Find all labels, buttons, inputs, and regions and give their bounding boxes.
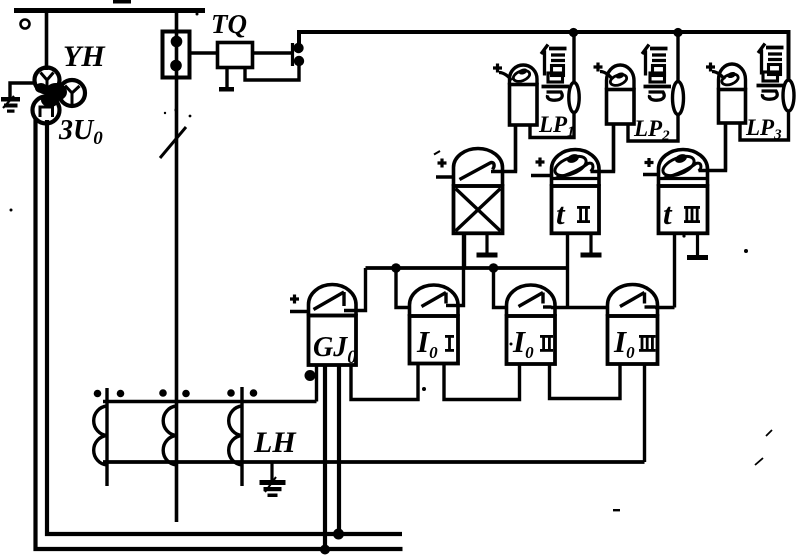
node small circle top-left: [21, 20, 30, 29]
wire LP2 to trip bus: [676, 32, 679, 82]
time relay tII body: [552, 186, 600, 233]
time relay tII dome: [552, 150, 600, 187]
I0II contact slash: [519, 293, 544, 307]
wire I0II to I0III staple: [550, 364, 621, 399]
GJ0 contact slash: [314, 292, 345, 310]
wire tIII coil left: [673, 233, 676, 307]
wire GJ0 current coil to CT line: [315, 365, 318, 402]
zone bus wire: [366, 266, 568, 270]
wire XJ1 to strap LP1: [530, 112, 574, 138]
signal relay XJ3 dome: [719, 64, 746, 90]
junction dot GJ0 terminal: [305, 370, 316, 381]
signal relay XJ2 dome: [607, 65, 635, 90]
wire GJ0 to I0I staple: [351, 364, 418, 400]
current relay I0I body: [410, 316, 459, 364]
KJ negative stub: [485, 233, 488, 252]
wire I0III to CT return: [643, 364, 646, 462]
ground PT: [1, 97, 20, 102]
voltage transformer YH winding 1: [35, 68, 60, 93]
intermediate relay KJ dome: [454, 149, 503, 187]
GJ0 contact exit wire to zone bus: [344, 268, 366, 311]
svg-text:t: t: [663, 196, 673, 231]
tIII contact exit wire: [699, 123, 726, 171]
GJ0 plus entry: [290, 310, 310, 313]
wire trip bus: [299, 32, 789, 81]
tIII contact curl: [660, 152, 697, 179]
TQ negative stub: [225, 68, 228, 88]
wire XJ2 to strap LP2: [628, 115, 678, 142]
wire 3U0 output left: [36, 118, 403, 549]
signal relay XJ1 body: [510, 85, 538, 126]
wire breaker feeder: [175, 12, 179, 522]
KJ contact exit wire: [491, 125, 516, 172]
signal relay XJ3 body: [719, 90, 746, 124]
tII plus entry: [531, 174, 553, 177]
connecting strap LP3: [783, 80, 794, 111]
tIII negative stub: [696, 233, 699, 255]
wire tII coil left: [566, 233, 569, 307]
label xinhao 1 (signal): [541, 45, 567, 76]
connecting strap LP2: [673, 82, 684, 115]
current relay I0III body: [608, 316, 658, 364]
current relay I0II body: [507, 316, 556, 364]
current transformer LH phase C: [229, 406, 242, 465]
wire I0I to I0II staple: [444, 364, 520, 400]
I0I contact slash: [422, 293, 447, 307]
tII contact exit wire: [591, 124, 614, 172]
KJ contact slash: [460, 163, 495, 180]
label xinhao 3 (signal): [758, 44, 784, 75]
wire XJ3 to tIII contact: [724, 123, 727, 171]
junction node B: [489, 263, 499, 273]
wire contact bottom loop to TQ: [245, 61, 299, 80]
junction dot LP1: [569, 28, 578, 37]
wire XJ3 to strap LP3: [740, 111, 789, 141]
wire I0I contact to KJ coil: [456, 233, 464, 305]
wire LP1 to trip bus: [572, 32, 575, 83]
svg-text:LH: LH: [253, 426, 297, 459]
svg-text:TQ: TQ: [211, 9, 247, 39]
signal relay XJ2 body: [607, 90, 635, 125]
current transformer LH phase A: [94, 406, 107, 465]
junction dot LP2: [673, 28, 682, 37]
signal relay XJ1 dome: [510, 65, 538, 84]
current transformer LH phase B: [163, 406, 176, 465]
ink blob at winding overlap: [45, 83, 67, 101]
directional relay GJ0 body: [309, 316, 357, 366]
ground CT: [270, 462, 273, 480]
voltage transformer YH winding 3 (open delta): [33, 97, 60, 124]
directional relay GJ0 dome: [309, 285, 357, 316]
svg-text:YH: YH: [63, 40, 106, 73]
junction node A: [391, 263, 401, 273]
tII contact curl: [552, 152, 589, 179]
wire KJ coil to zone bus: [463, 233, 466, 268]
KJ plus entry: [436, 175, 455, 178]
wire XJ1 to KJ contact: [514, 125, 517, 172]
CT secondary top wire: [103, 400, 317, 403]
wire GJ0 voltage coil to inner bus: [337, 365, 341, 534]
current relay I0II dome: [507, 285, 556, 316]
time relay tIII body: [659, 186, 708, 233]
current relay I0I dome: [410, 285, 459, 316]
current relay I0III dome: [608, 284, 658, 316]
signal relay XJ3 plus entry: [706, 63, 715, 72]
signal relay XJ1 plus entry: [493, 64, 502, 73]
DL auxiliary contact: [291, 43, 294, 66]
wire TQ to DL aux contact: [253, 51, 294, 54]
trip coil TQ: [218, 43, 253, 68]
voltage transformer YH winding 2: [59, 80, 85, 106]
phase wire A: [105, 388, 108, 486]
slash mark on feeder: [160, 127, 186, 158]
time relay tIII dome: [659, 150, 708, 187]
wire breaker to TQ coil: [190, 51, 218, 54]
wire 3U0 output right: [47, 120, 402, 534]
label xinhao 2 (signal): [642, 45, 668, 76]
tIII plus entry: [643, 173, 660, 176]
intermediate relay KJ body: [454, 186, 503, 233]
wire drop to I0II contact: [494, 268, 509, 308]
wire PT neutral to ground: [10, 83, 36, 97]
phase wire C: [240, 387, 243, 486]
breaker DL: [163, 32, 190, 78]
wire XJ2 to tII contact: [612, 124, 615, 172]
svg-text:t: t: [556, 196, 566, 231]
busbar: [14, 8, 205, 13]
I0III contact slash: [620, 293, 645, 307]
wire drop to I0I contact: [396, 268, 410, 308]
wire GJ0 voltage coil to outer bus: [323, 365, 327, 551]
tII negative stub: [589, 233, 592, 252]
connecting strap LP1: [569, 83, 579, 113]
wire I0III contact to tIII coil: [655, 306, 675, 309]
wire YH feeder from busbar: [45, 12, 49, 70]
wire I0II contact to tII coil node: [551, 306, 608, 309]
CT secondary return wire: [103, 460, 645, 464]
signal relay XJ2 plus entry: [594, 63, 603, 72]
